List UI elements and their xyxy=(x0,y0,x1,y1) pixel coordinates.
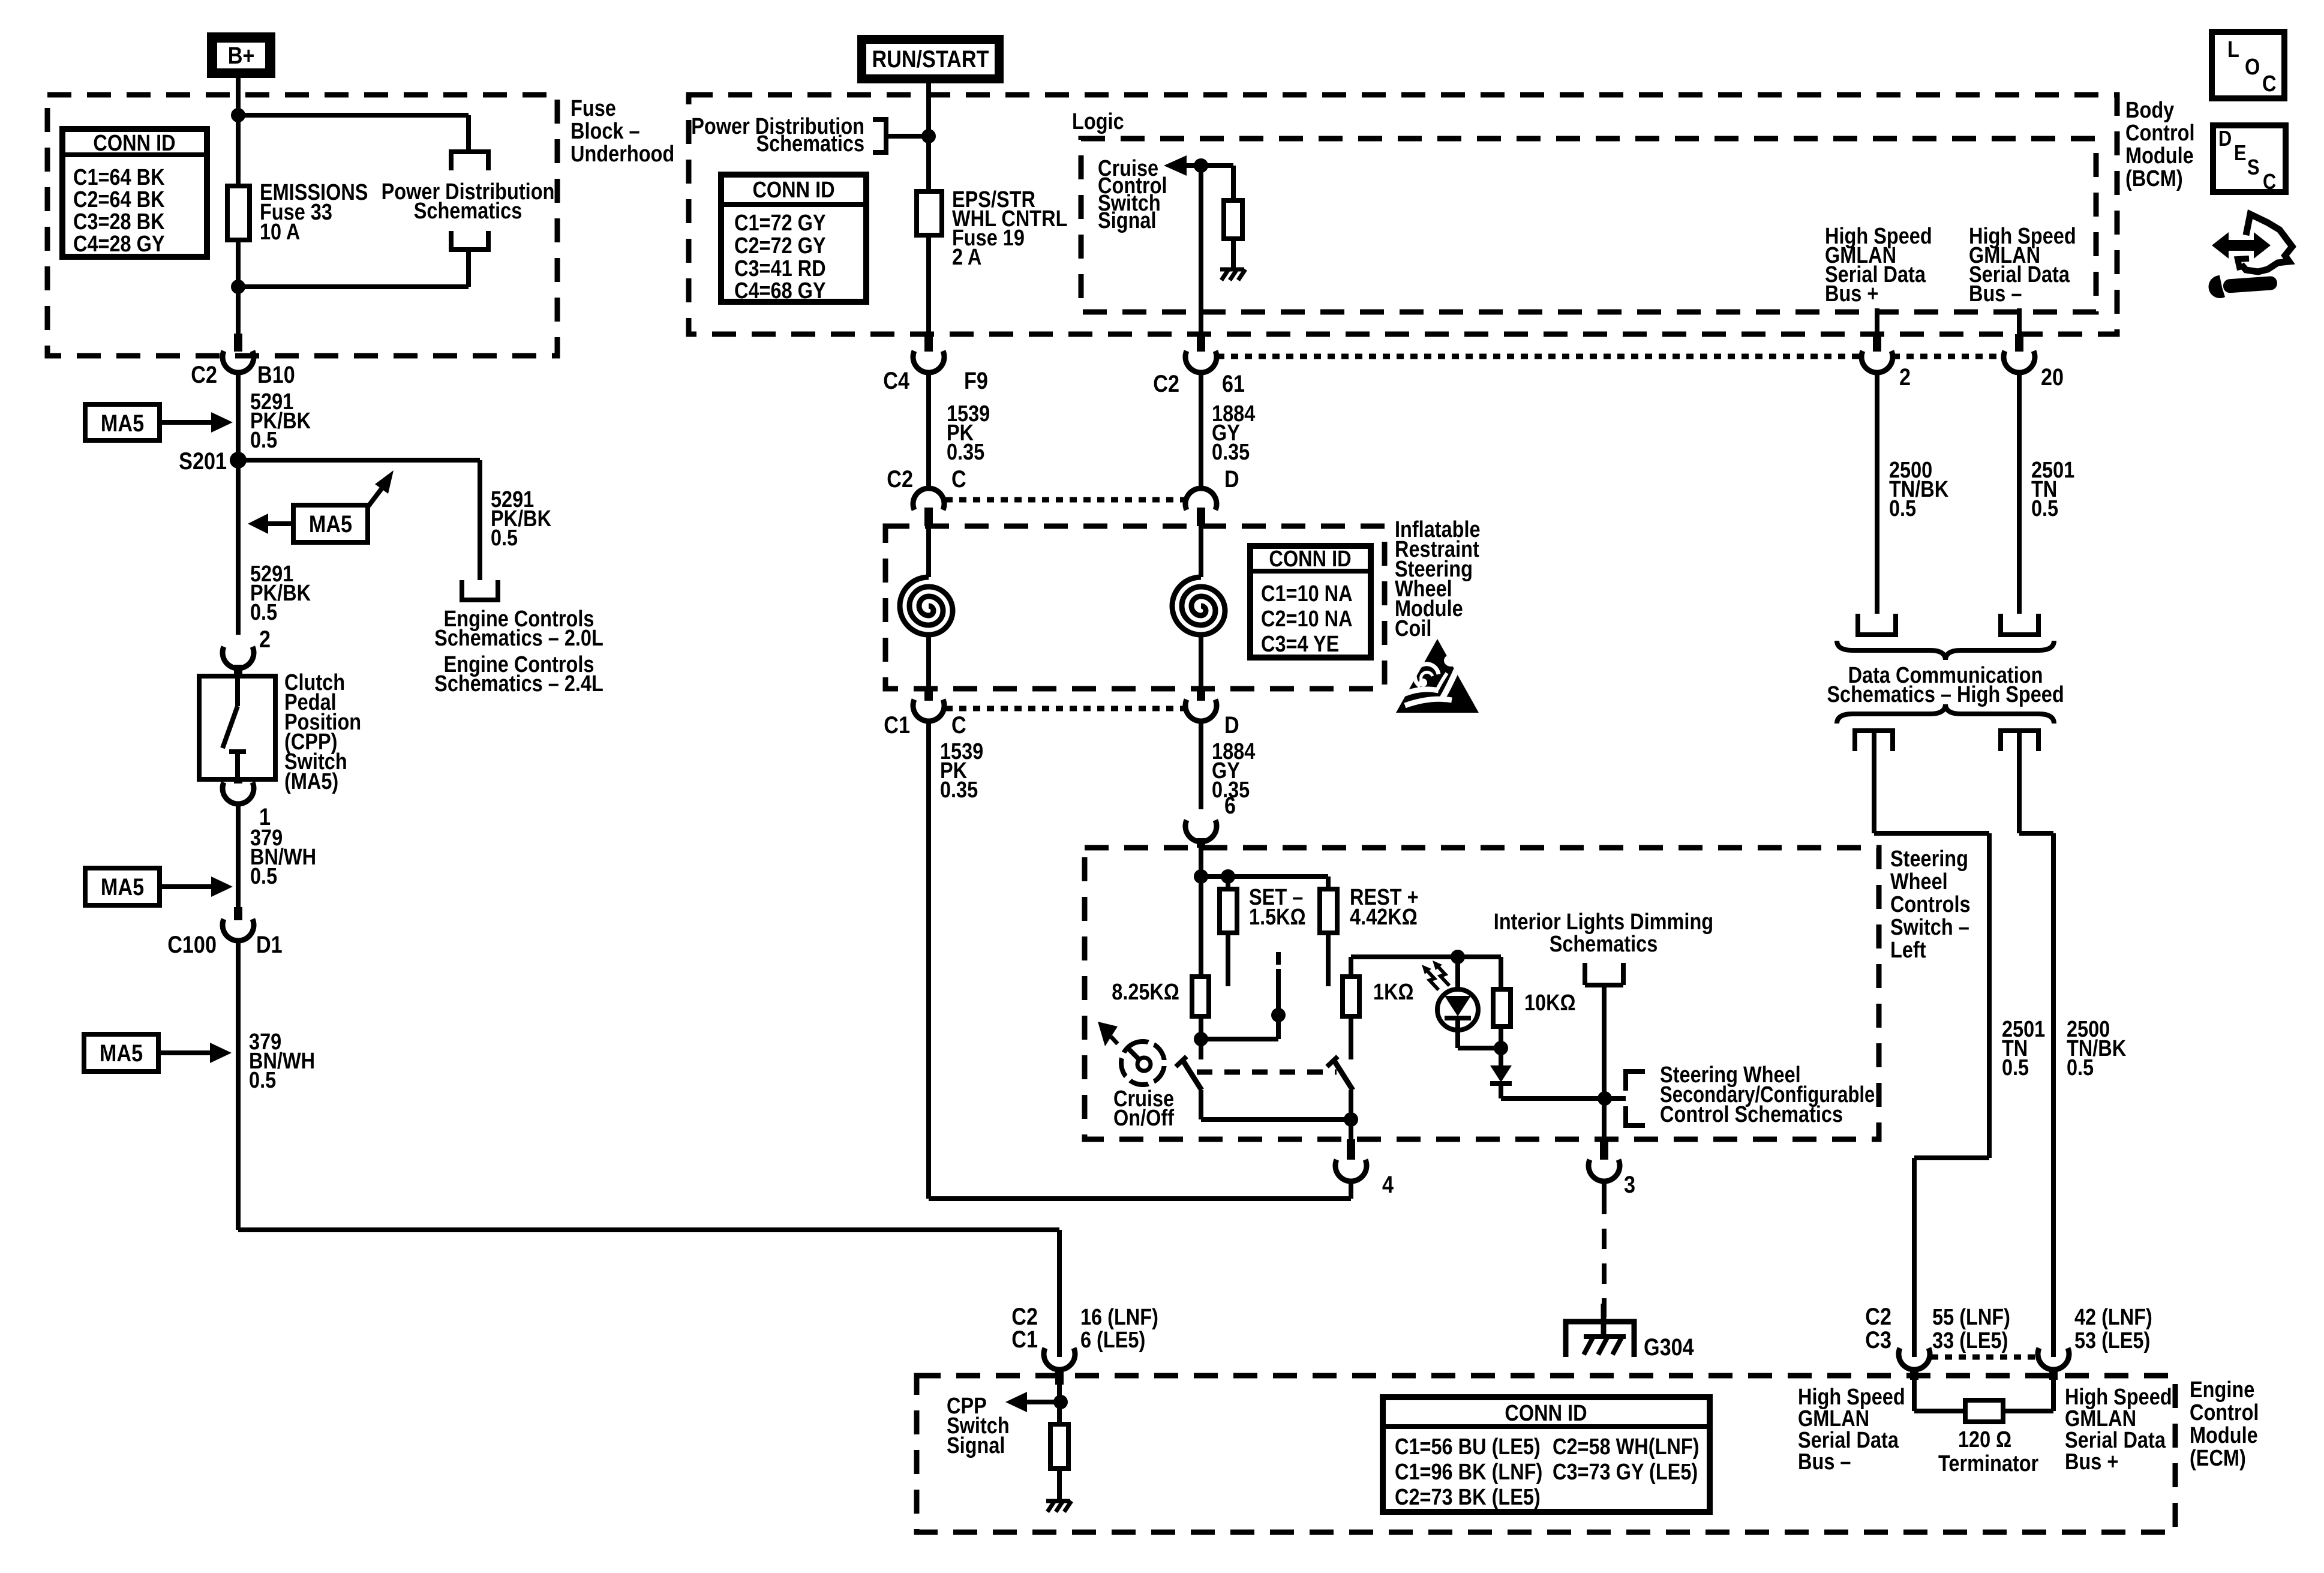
arrow MA5 box 3 to wire xyxy=(160,884,211,889)
svg-text:20: 20 xyxy=(2041,363,2064,390)
svg-text:C2=72 GY: C2=72 GY xyxy=(734,233,826,259)
svg-text:S: S xyxy=(2247,156,2260,180)
svg-text:On/Off: On/Off xyxy=(1113,1106,1174,1131)
steering wheel secondary bracket xyxy=(1626,1071,1645,1091)
connector pin 3 xyxy=(1600,1139,1608,1160)
connector ECM 42 53 xyxy=(2038,1348,2069,1370)
wire pin4 down xyxy=(1349,1119,1353,1139)
svg-text:C2: C2 xyxy=(191,361,217,388)
data link connector icon xyxy=(2212,232,2271,259)
mechanical linkage dashed xyxy=(1197,1070,1337,1075)
connector pin 4 xyxy=(1347,1139,1355,1160)
off-page bracket bus plus lower xyxy=(2001,731,2038,751)
connector C2/C1 16 6 xyxy=(1044,1348,1075,1370)
svg-text:C1=72 GY: C1=72 GY xyxy=(734,211,826,236)
wire wiper branch xyxy=(1201,1037,1278,1041)
LED lamp xyxy=(1455,957,1460,991)
svg-text:Engine: Engine xyxy=(2190,1377,2254,1403)
svg-text:10KΩ: 10KΩ xyxy=(1524,990,1576,1016)
MA5 reference box 2 xyxy=(293,505,368,542)
svg-text:Controls: Controls xyxy=(1890,892,1971,917)
conn id table ECM xyxy=(1383,1397,1710,1512)
wire LED bottom junction xyxy=(1458,1046,1501,1050)
svg-text:0.35: 0.35 xyxy=(940,778,978,803)
junction dot cruise signal xyxy=(1194,158,1208,173)
connector pin 6 steering wheel switch xyxy=(1185,820,1217,842)
svg-text:C1: C1 xyxy=(884,711,910,738)
svg-text:Control: Control xyxy=(2125,121,2194,146)
connector D coil top xyxy=(1185,488,1217,510)
junction dot below 10K xyxy=(1494,1041,1508,1055)
svg-text:Bus –: Bus – xyxy=(1969,281,2022,307)
arrow CPP switch signal xyxy=(1005,1392,1027,1412)
MA5 reference box 4 xyxy=(84,1034,158,1071)
connector C1 C coil bottom xyxy=(924,689,933,701)
svg-text:MA5: MA5 xyxy=(101,409,144,436)
svg-text:3: 3 xyxy=(1624,1170,1635,1197)
svg-text:C3=28 BK: C3=28 BK xyxy=(73,209,165,235)
svg-text:10 A: 10 A xyxy=(260,220,300,245)
arrow MA5 box 1 to wire xyxy=(160,420,211,425)
svg-text:0.5: 0.5 xyxy=(250,600,277,625)
wire main down to 8.25K xyxy=(1199,876,1203,977)
svg-text:0.35: 0.35 xyxy=(947,440,984,465)
resistor REST 4.42K xyxy=(1326,876,1331,889)
svg-text:MA5: MA5 xyxy=(309,510,352,537)
connector D coil bottom xyxy=(1197,689,1205,701)
connector pin 1 CPP switch xyxy=(234,779,242,784)
off-page bracket bus plus xyxy=(1858,614,1896,635)
wire LED branch to 10K xyxy=(1458,954,1501,959)
svg-text:C3: C3 xyxy=(1865,1326,1891,1353)
off-page bracket power distribution schematics xyxy=(873,119,886,152)
svg-text:Body: Body xyxy=(2125,98,2175,123)
off-page bracket bus minus xyxy=(2001,614,2038,635)
connector ECM C2/C3 55 33 xyxy=(1899,1348,1930,1370)
wire bus minus BCM internal xyxy=(2017,308,2022,334)
svg-text:Logic: Logic xyxy=(1072,109,1124,134)
wire fuse 33 to connector C2-B10 xyxy=(236,240,241,334)
svg-text:Bus +: Bus + xyxy=(1825,281,1878,307)
svg-text:Module: Module xyxy=(2125,143,2194,169)
svg-text:2: 2 xyxy=(1899,363,1911,390)
svg-text:Terminator: Terminator xyxy=(1938,1451,2038,1476)
wire C100 down and across to ECM xyxy=(236,939,241,1230)
off-page bracket power distribution bottom xyxy=(451,231,488,250)
svg-text:61: 61 xyxy=(1222,370,1245,397)
fuse F19 EPS/STR WHL CNTRL xyxy=(917,191,942,235)
svg-text:8.25KΩ: 8.25KΩ xyxy=(1112,980,1179,1005)
interior lights dimming bracket xyxy=(1583,963,1587,985)
wire bus plus BCM internal xyxy=(1875,308,1879,334)
svg-text:Schematics – High Speed: Schematics – High Speed xyxy=(1827,682,2064,707)
svg-text:2: 2 xyxy=(259,625,271,652)
coil connector dotted line top xyxy=(945,497,1185,503)
power feed B+ terminal box xyxy=(207,32,275,78)
svg-text:D: D xyxy=(1224,465,1239,492)
svg-text:L: L xyxy=(2227,37,2239,62)
svg-text:D1: D1 xyxy=(256,930,283,957)
svg-text:C1: C1 xyxy=(1011,1325,1038,1352)
svg-text:C2: C2 xyxy=(1153,370,1179,397)
logic pull-up resistor xyxy=(1231,166,1236,200)
clutch pedal position switch MA5 box xyxy=(199,676,275,779)
svg-text:C2=64 BK: C2=64 BK xyxy=(73,187,165,212)
wire RUN/START down to fuse 19 xyxy=(926,80,931,191)
svg-text:C1=96 BK (LNF): C1=96 BK (LNF) xyxy=(1395,1460,1542,1485)
svg-text:E: E xyxy=(2234,142,2247,166)
svg-text:G304: G304 xyxy=(1644,1333,1694,1360)
logic dashed box xyxy=(1081,139,2096,312)
junction dot top of fuse block xyxy=(231,108,245,122)
junction dot below fuse 33 xyxy=(231,280,245,294)
clockspring coil left xyxy=(926,526,931,577)
arrow MA5 box 2 left xyxy=(268,521,293,526)
conn id table fuse block xyxy=(62,129,207,257)
resistor 1K xyxy=(1349,957,1353,977)
svg-text:(MA5): (MA5) xyxy=(284,769,338,794)
svg-text:C: C xyxy=(2262,71,2276,97)
wire CPP input xyxy=(1057,1385,1062,1424)
svg-text:Schematics: Schematics xyxy=(756,131,864,157)
BCM connector face dotted line xyxy=(1217,354,1861,359)
svg-text:CONN ID: CONN ID xyxy=(1505,1401,1587,1426)
svg-text:120 Ω: 120 Ω xyxy=(1958,1427,2011,1452)
cruise on/off switch blade xyxy=(1199,1039,1203,1059)
svg-text:S201: S201 xyxy=(179,447,227,474)
svg-text:(BCM): (BCM) xyxy=(2125,166,2183,191)
wire S201 branch right xyxy=(238,458,480,463)
wire B+ down to fuse 33 xyxy=(236,78,241,186)
svg-text:0.5: 0.5 xyxy=(249,1068,276,1093)
svg-text:(ECM): (ECM) xyxy=(2190,1446,2246,1471)
svg-text:0.5: 0.5 xyxy=(1889,496,1916,521)
svg-text:C1=56 BU (LE5): C1=56 BU (LE5) xyxy=(1395,1434,1541,1460)
svg-text:4: 4 xyxy=(1382,1170,1394,1197)
LOC icon box xyxy=(2212,32,2284,98)
steering wheel controls switch dashed box xyxy=(1085,848,1879,1139)
svg-text:Block –: Block – xyxy=(571,119,640,144)
wire diode to pin 3 xyxy=(1501,1096,1626,1101)
svg-text:0.5: 0.5 xyxy=(491,526,518,551)
svg-text:0.5: 0.5 xyxy=(2067,1055,2094,1080)
CPP pull resistor xyxy=(1050,1424,1068,1469)
wire interior lights to pin 3 xyxy=(1602,985,1607,1139)
wire C2-61 to coil connector xyxy=(1199,371,1203,490)
svg-text:Signal: Signal xyxy=(947,1433,1005,1458)
svg-text:16 (LNF): 16 (LNF) xyxy=(1080,1305,1158,1330)
ground G304 xyxy=(1566,1322,1634,1357)
svg-text:1.5KΩ: 1.5KΩ xyxy=(1249,905,1306,930)
svg-text:0.35: 0.35 xyxy=(1212,440,1250,465)
svg-text:Coil: Coil xyxy=(1395,616,1431,641)
svg-text:C3=73 GY (LE5): C3=73 GY (LE5) xyxy=(1553,1460,1698,1485)
junction dot set resistor xyxy=(1221,869,1235,884)
body control module dashed box xyxy=(689,95,2117,334)
svg-text:0.5: 0.5 xyxy=(2031,496,2058,521)
svg-text:D: D xyxy=(2218,127,2232,151)
svg-text:Fuse: Fuse xyxy=(571,96,616,121)
CPP switch contacts xyxy=(235,676,240,706)
MA5 reference box 3 xyxy=(85,868,160,905)
wire pin 3 dashed to G304 xyxy=(1602,1180,1607,1194)
wire CPP pin1 to C100 xyxy=(236,803,241,907)
svg-text:D: D xyxy=(1224,711,1239,738)
arrow MA5 box 4 to wire xyxy=(158,1050,210,1055)
svg-text:CONN ID: CONN ID xyxy=(752,178,834,203)
fuse block underhood dashed box xyxy=(47,95,557,356)
connector C100 D1 xyxy=(234,907,242,920)
wire pin 4 to 1539 PK run xyxy=(1349,1180,1353,1199)
svg-text:C3=41 RD: C3=41 RD xyxy=(734,256,826,281)
resistor 10K xyxy=(1499,957,1503,989)
svg-text:C4=28 GY: C4=28 GY xyxy=(73,232,165,257)
svg-text:C4=68 GY: C4=68 GY xyxy=(734,278,826,304)
svg-text:C1=64 BK: C1=64 BK xyxy=(73,165,165,190)
junction dot pin 3 wire xyxy=(1598,1091,1612,1106)
engine control module dashed box xyxy=(917,1376,2175,1532)
svg-text:B10: B10 xyxy=(257,361,295,388)
junction dot run/start feed xyxy=(921,129,936,143)
brace data communication top xyxy=(1837,641,2054,660)
svg-text:CONN ID: CONN ID xyxy=(1269,547,1351,572)
ground CPP resistor xyxy=(1046,1499,1070,1503)
wire power distribution bracket return xyxy=(466,250,471,287)
connector C4 F9 xyxy=(924,334,933,352)
svg-text:Schematics: Schematics xyxy=(414,199,523,224)
svg-text:Control Schematics: Control Schematics xyxy=(1660,1102,1843,1127)
svg-text:C2: C2 xyxy=(887,465,913,492)
arrow MA5 box 2 diagonal xyxy=(368,487,383,507)
wire coil D down to switch xyxy=(1199,720,1203,809)
connector pin 2 CPP switch xyxy=(223,647,254,668)
svg-text:C3=4 YE: C3=4 YE xyxy=(1261,632,1339,657)
wire bus plus down xyxy=(1875,371,1879,614)
power feed RUN/START terminal box xyxy=(857,35,1004,83)
diode xyxy=(1499,1048,1503,1065)
svg-text:Steering: Steering xyxy=(1890,846,1968,872)
svg-text:O: O xyxy=(2245,55,2260,80)
set/resume wiper line xyxy=(1276,969,1281,1015)
DESC icon box xyxy=(2213,125,2286,192)
svg-text:CONN ID: CONN ID xyxy=(93,131,175,156)
svg-text:C2=73 BK (LE5): C2=73 BK (LE5) xyxy=(1395,1485,1541,1510)
off-page bracket engine controls xyxy=(462,580,498,600)
resistor SET 1.5K xyxy=(1226,876,1230,889)
brace data communication bottom xyxy=(1837,704,2054,724)
svg-text:Bus +: Bus + xyxy=(2065,1449,2118,1475)
svg-text:Bus –: Bus – xyxy=(1798,1449,1851,1475)
connector C2 B10 xyxy=(234,334,242,352)
svg-text:Schematics – 2.4L: Schematics – 2.4L xyxy=(434,671,603,697)
connector C2 61 xyxy=(1197,334,1205,352)
wire cruise signal down to C2-61 xyxy=(1199,166,1203,334)
svg-text:F9: F9 xyxy=(964,367,988,394)
conn id table coil xyxy=(1250,546,1371,658)
wire C4-F9 to coil connector xyxy=(926,371,931,490)
svg-text:Signal: Signal xyxy=(1098,208,1156,233)
junction dot below 8.25K xyxy=(1194,1032,1208,1046)
svg-text:53 (LE5): 53 (LE5) xyxy=(2074,1328,2150,1353)
resistor 8.25K xyxy=(1192,977,1209,1016)
fuse F33 EMISSIONS xyxy=(227,186,250,240)
connector C2 C coil top xyxy=(913,488,944,510)
wire cruise switch to pin 4 xyxy=(1199,1090,1203,1119)
svg-text:C2=10 NA: C2=10 NA xyxy=(1261,607,1353,632)
wire 1K top to LED branch xyxy=(1351,954,1458,959)
svg-text:6 (LE5): 6 (LE5) xyxy=(1080,1328,1145,1353)
ECM connector face dotted line xyxy=(1931,1355,2037,1360)
wire bus minus to ECM xyxy=(1872,731,1876,833)
svg-text:6: 6 xyxy=(1224,791,1236,818)
svg-text:33 (LE5): 33 (LE5) xyxy=(1932,1328,2008,1353)
inflatable restraint coil dashed box xyxy=(885,526,1385,689)
cruise on/off gauge icon xyxy=(1121,1041,1164,1085)
svg-text:Left: Left xyxy=(1890,938,1926,963)
svg-text:MA5: MA5 xyxy=(100,1039,143,1066)
off-page bracket bus minus lower xyxy=(1855,731,1893,751)
ground logic resistor xyxy=(1220,268,1244,272)
clockspring coil right xyxy=(1199,526,1203,577)
wire connector B10 to S201 xyxy=(236,371,241,460)
wire bus minus down xyxy=(2017,371,2022,614)
svg-text:4.42KΩ: 4.42KΩ xyxy=(1350,905,1418,930)
svg-text:0.5: 0.5 xyxy=(2002,1055,2029,1080)
svg-text:C100: C100 xyxy=(167,930,217,957)
svg-text:42 (LNF): 42 (LNF) xyxy=(2074,1305,2152,1330)
splice S201 xyxy=(230,452,247,469)
wire pin6 into switch xyxy=(1199,848,1203,876)
svg-text:2 A: 2 A xyxy=(952,245,981,270)
junction dot LED top xyxy=(1451,950,1465,964)
svg-text:B+: B+ xyxy=(228,41,255,68)
svg-text:Schematics – 2.0L: Schematics – 2.0L xyxy=(434,626,603,651)
wire bus plus to ECM xyxy=(2017,731,2022,833)
conn id table BCM xyxy=(721,175,866,302)
svg-text:1KΩ: 1KΩ xyxy=(1373,980,1414,1005)
junction dot switch feed xyxy=(1194,869,1208,884)
junction dot CPP arrow xyxy=(1053,1395,1068,1409)
terminator 120 ohm resistor xyxy=(1912,1380,1917,1411)
svg-text:C: C xyxy=(951,465,966,492)
svg-text:C2=58 WH(LNF): C2=58 WH(LNF) xyxy=(1553,1434,1700,1460)
connector BCM pin 2 xyxy=(1873,334,1881,352)
svg-text:Interior Lights Dimming: Interior Lights Dimming xyxy=(1494,909,1713,935)
svg-text:RUN/START: RUN/START xyxy=(872,45,989,72)
svg-text:Underhood: Underhood xyxy=(571,142,674,167)
svg-text:Switch –: Switch – xyxy=(1890,915,1969,940)
off-page bracket power distribution top xyxy=(451,152,488,170)
coil connector dotted line bottom xyxy=(945,706,1185,712)
svg-text:C1=10 NA: C1=10 NA xyxy=(1261,581,1353,607)
svg-text:C: C xyxy=(951,711,966,738)
led illumination arrows xyxy=(1427,970,1439,990)
svg-text:0.5: 0.5 xyxy=(250,428,277,453)
set/resume switch blade xyxy=(1334,1061,1353,1090)
svg-text:Wheel: Wheel xyxy=(1890,869,1948,894)
svg-text:Control: Control xyxy=(2190,1400,2259,1425)
svg-text:C4: C4 xyxy=(883,367,909,394)
svg-text:Schematics: Schematics xyxy=(1550,932,1658,957)
junction dot wiper xyxy=(1271,1008,1286,1022)
svg-text:MA5: MA5 xyxy=(101,873,144,900)
arrow cruise control switch signal xyxy=(1164,155,1187,176)
connector BCM pin 20 xyxy=(2015,334,2023,352)
wire S201 down to CPP switch xyxy=(236,460,241,635)
svg-text:C: C xyxy=(2263,170,2276,194)
junction dot pin 4 wire xyxy=(1344,1112,1358,1127)
svg-text:Module: Module xyxy=(2190,1423,2258,1448)
MA5 reference box 1 xyxy=(85,404,160,440)
svg-text:55 (LNF): 55 (LNF) xyxy=(1932,1305,2010,1330)
svg-text:0.5: 0.5 xyxy=(250,864,277,889)
wire branch to power distribution bracket xyxy=(238,113,469,118)
wire switch feed across xyxy=(1201,874,1328,879)
wire fuse 19 to BCM bottom xyxy=(926,235,931,334)
